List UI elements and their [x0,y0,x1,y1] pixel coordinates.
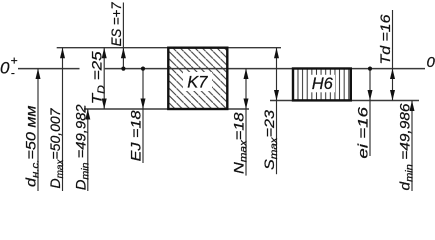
dimension D_max line [62,48,64,191]
EI level line [84,108,249,110]
zero line [18,68,80,70]
ei level line [270,100,419,102]
dimension T_D line (double arrow ES-EI) [103,48,105,109]
dimension d_min line [411,101,413,192]
tolerance zone H6 (hatched box) [293,69,351,101]
svg-text:H6: H6 [312,75,334,93]
tolerance zone K7 (hatched box) [168,48,227,109]
dimension ES line [122,3,124,69]
dimension S_max line (double arrow ES-ei) [276,48,278,175]
node dot ei [368,67,372,71]
dimension d_n.s. line [37,69,39,192]
svg-text:0: 0 [0,59,10,78]
ES level line [57,47,281,49]
svg-text:-: - [11,66,15,80]
svg-text:ei =16: ei =16 [355,107,371,159]
dimension N_max line (double arrow 0-EI) [245,69,247,176]
svg-text:EJ =18: EJ =18 [128,110,144,161]
dimension ei line [369,69,371,157]
node dot ES [121,67,125,71]
svg-text:ES =+7: ES =+7 [108,1,124,46]
dimension EJ line [142,69,144,163]
svg-text:0: 0 [427,54,435,71]
node dot EJ [141,67,145,71]
svg-text:K7: K7 [187,73,208,91]
svg-text:Td =16: Td =16 [377,14,393,64]
dimension D_min line [87,109,89,191]
dimension Td line (double arrow 0-ei) [392,10,394,101]
